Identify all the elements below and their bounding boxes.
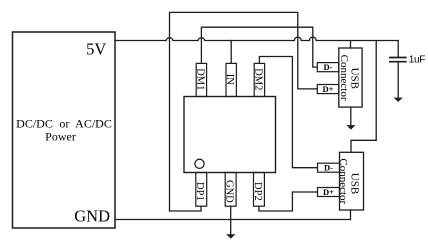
svg-text:5V: 5V (86, 40, 106, 59)
pin box DP2 (254, 173, 265, 207)
svg-text:GND: GND (74, 207, 110, 226)
svg-text:GND: GND (224, 180, 235, 203)
power supply block PS1 (13, 32, 116, 228)
svg-text:DP2: DP2 (252, 182, 263, 201)
upper USB connector D- pin box (317, 63, 339, 72)
pin box DP1 (196, 173, 207, 207)
wire net DM1: DM1 pin to D- of upper USB connector (201, 27, 317, 67)
lower USB connector J2 body (340, 152, 364, 210)
ground symbol below capacitor C1 (394, 98, 403, 102)
svg-text:D-: D- (324, 163, 333, 173)
svg-text:DP1: DP1 (194, 182, 205, 201)
svg-text:D-: D- (324, 62, 333, 72)
svg-text:D+: D+ (323, 187, 334, 197)
svg-text:Connector: Connector (337, 158, 349, 204)
svg-text:USB: USB (348, 173, 360, 194)
wire capacitor to ground symbol (397, 63, 399, 100)
svg-text:DC/DC or AC/DC: DC/DC or AC/DC (16, 117, 112, 131)
ground symbol at IC GND pin (226, 234, 235, 238)
wire IN pin to 5V rail (230, 41, 232, 64)
upper USB connector D+ pin box (317, 85, 339, 94)
wire net DP1: DP1 pin to D+ of upper USB connector (170, 12, 318, 211)
lower USB connector D- pin box (318, 163, 340, 172)
svg-text:D+: D+ (323, 84, 334, 94)
ground symbol below upper USB connector (346, 125, 355, 130)
capacitor C1 plates (390, 58, 406, 62)
svg-text:DM2: DM2 (252, 68, 263, 90)
pin box DM1 (196, 63, 206, 96)
svg-text:1uF: 1uF (409, 55, 426, 66)
svg-text:DM1: DM1 (194, 68, 205, 90)
svg-text:IN: IN (224, 74, 235, 85)
lower USB connector D+ pin box (318, 188, 340, 197)
IC U1 body (184, 97, 276, 173)
pin box DM2 (254, 63, 264, 96)
IC U1 pin-1 marker circle (195, 159, 204, 168)
svg-text:Power: Power (45, 130, 76, 144)
wire net DM2: DM2 pin to D- of lower USB connector (259, 57, 317, 168)
wire IC GND pin to ground symbol (crosses GND rail) (230, 206, 232, 236)
wire upper USB connector shell to ground symbol (350, 107, 352, 127)
wire 5V rail to upper USB connector (350, 41, 352, 49)
svg-text:Connector: Connector (338, 55, 350, 101)
wire net DP2: DP2 pin to D+ of lower USB connector (259, 192, 318, 211)
pin box IN (226, 63, 236, 96)
wire lower USB connector to GND rail (350, 210, 352, 219)
wire 5V rail to lower USB connector (351, 41, 376, 153)
upper USB connector J1 body (339, 48, 362, 107)
pin box GND (225, 173, 236, 207)
wire GND rail (power box to lower USB connector) (115, 219, 351, 221)
wire 5V rail (power box to capacitor, hops over DP1/DM1/D+/D- verticals) (115, 37, 398, 57)
